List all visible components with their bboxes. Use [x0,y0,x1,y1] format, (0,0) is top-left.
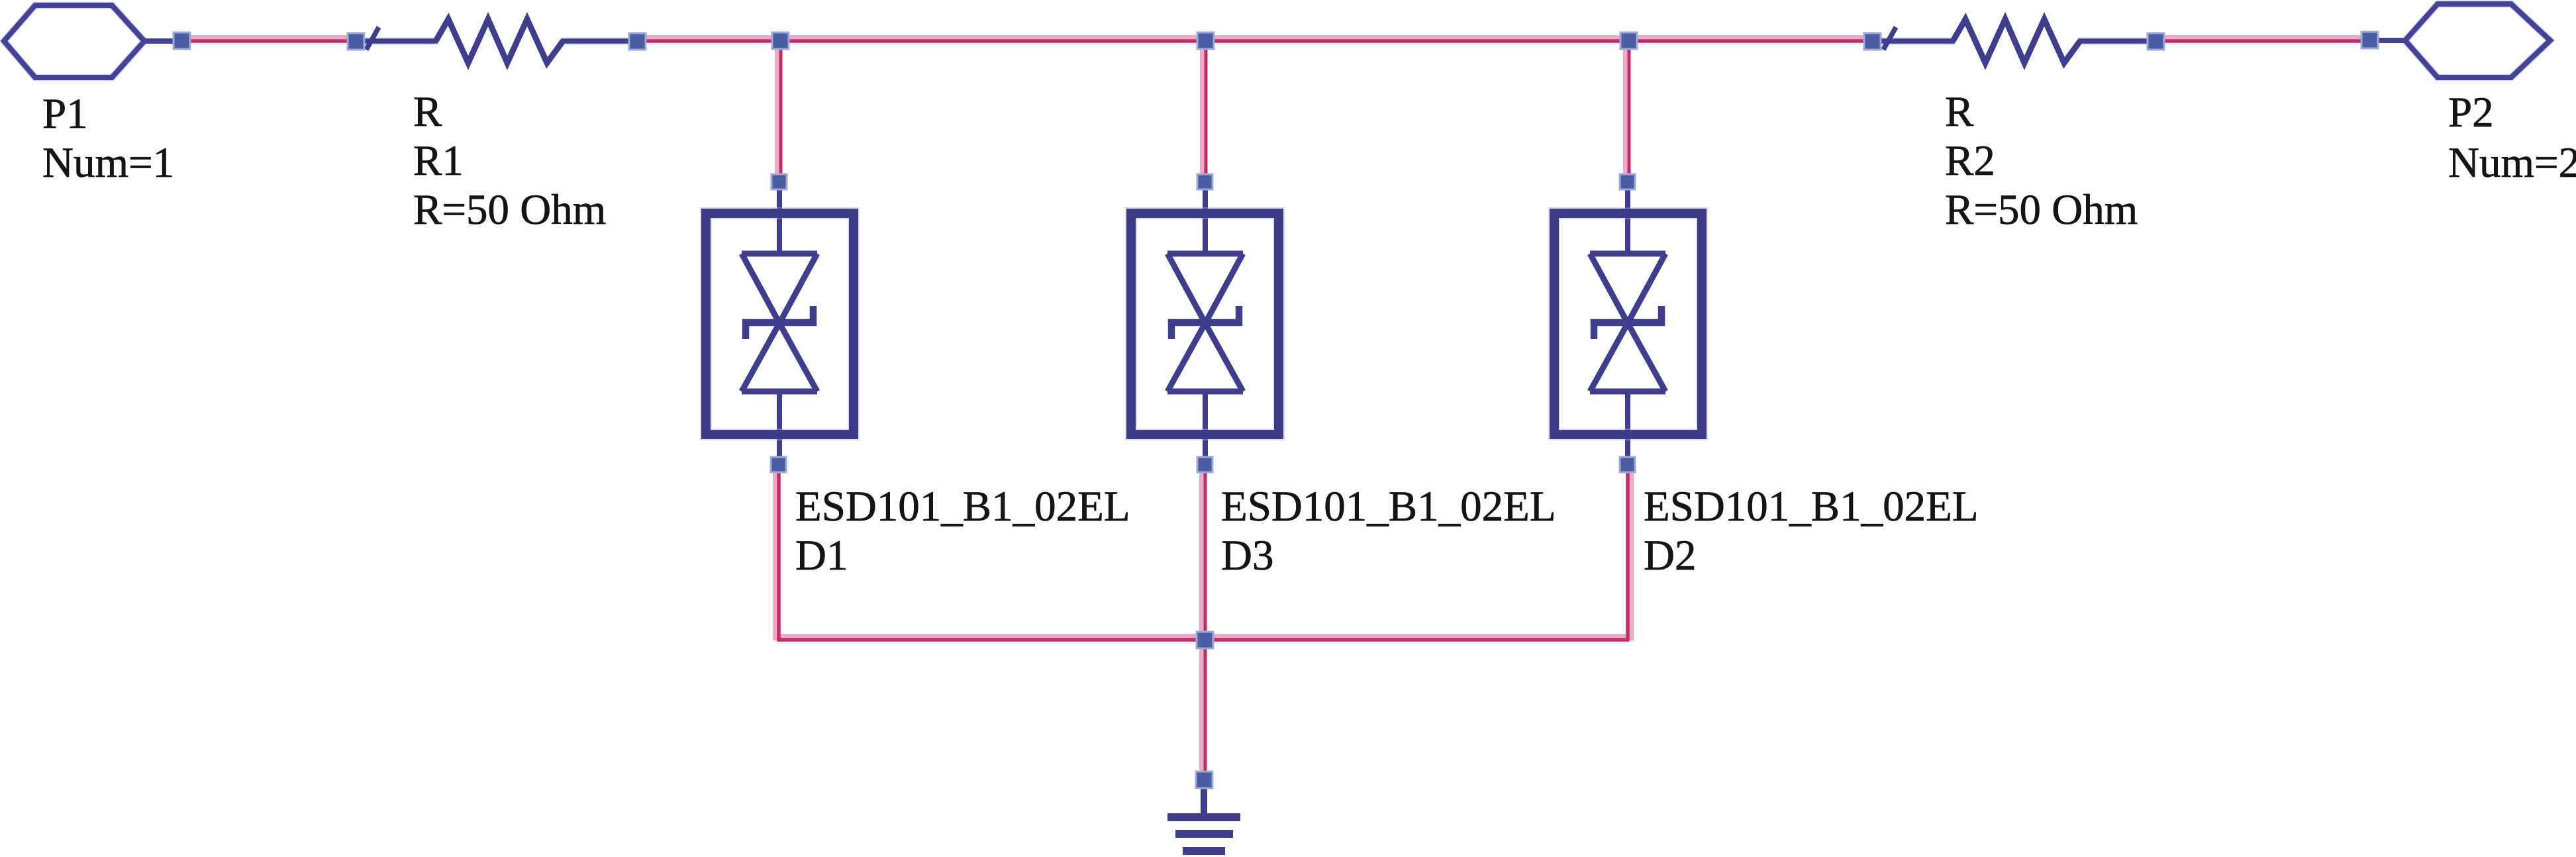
node R2 pin2 [2148,33,2164,50]
svg-text:R=50 Ohm: R=50 Ohm [1945,186,2138,234]
ground [1167,787,1240,851]
port P2 [2365,4,2550,77]
port P1 [4,5,185,77]
resistor R1 [360,19,641,63]
svg-text:ESD101_B1_02EL: ESD101_B1_02EL [1644,483,1979,530]
node ground pin [1196,772,1213,788]
wire R2 to P2 [2159,38,2367,41]
node D1 bottom [771,457,786,472]
node P2 pin [2361,32,2378,48]
node bus junction [1197,632,1213,648]
node R2 pin1 [1864,33,1881,50]
node R1 pin2 [629,33,646,50]
node D2 bottom [1620,457,1635,472]
svg-text:ESD101_B1_02EL: ESD101_B1_02EL [795,483,1130,530]
wire junction to D1 top [778,41,781,179]
svg-text:R2: R2 [1945,137,1995,185]
svg-text:D3: D3 [1221,532,1273,580]
wire D1 bottom to ground bus [776,470,1205,640]
node junction D3 [1197,32,1214,49]
wire D3 bottom to bus junction [1203,470,1205,640]
resistor R2 [1877,19,2158,63]
svg-text:R: R [1945,88,1974,136]
node D3 bottom [1197,457,1213,472]
svg-text:R: R [413,88,442,136]
node R1 pin1 [348,33,364,50]
node junction D2 [1620,32,1637,49]
wire junction to D2 top [1626,41,1629,179]
diode D2 [1554,188,1702,464]
node D2 top [1620,174,1635,189]
wire junction to D3 top [1203,41,1206,179]
wire bus junction to ground [1203,640,1205,776]
svg-text:D2: D2 [1644,532,1696,580]
svg-text:P2: P2 [2448,89,2494,136]
svg-text:R=50 Ohm: R=50 Ohm [413,186,606,234]
node P1 pin [173,32,190,49]
svg-text:Num=2: Num=2 [2448,139,2576,187]
node D1 top [771,174,787,189]
diode D3 [1131,188,1279,464]
svg-text:ESD101_B1_02EL: ESD101_B1_02EL [1221,483,1556,530]
svg-text:D1: D1 [795,532,848,580]
svg-text:Num=1: Num=1 [42,139,174,187]
wire R1 to R2 (main net) [640,38,1870,41]
node D3 top [1197,174,1213,189]
svg-text:P1: P1 [42,90,88,138]
diode D1 [706,188,854,464]
wire P1 to R1 [188,38,352,41]
wire D2 bottom to ground bus [1205,470,1630,640]
svg-text:R1: R1 [413,137,464,185]
node junction D1 [772,32,789,49]
